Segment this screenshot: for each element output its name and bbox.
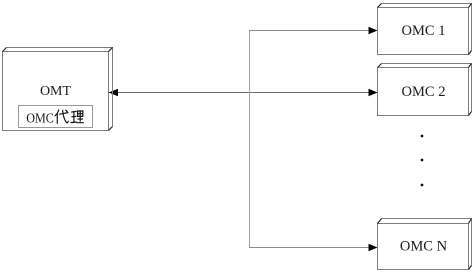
svg-text:OMC: OMC	[26, 112, 54, 127]
svg-text:OMC 1: OMC 1	[402, 23, 446, 39]
svg-text:OMC N: OMC N	[400, 239, 448, 255]
svg-text:OMC 2: OMC 2	[402, 84, 446, 100]
svg-text:OMT: OMT	[40, 84, 72, 99]
